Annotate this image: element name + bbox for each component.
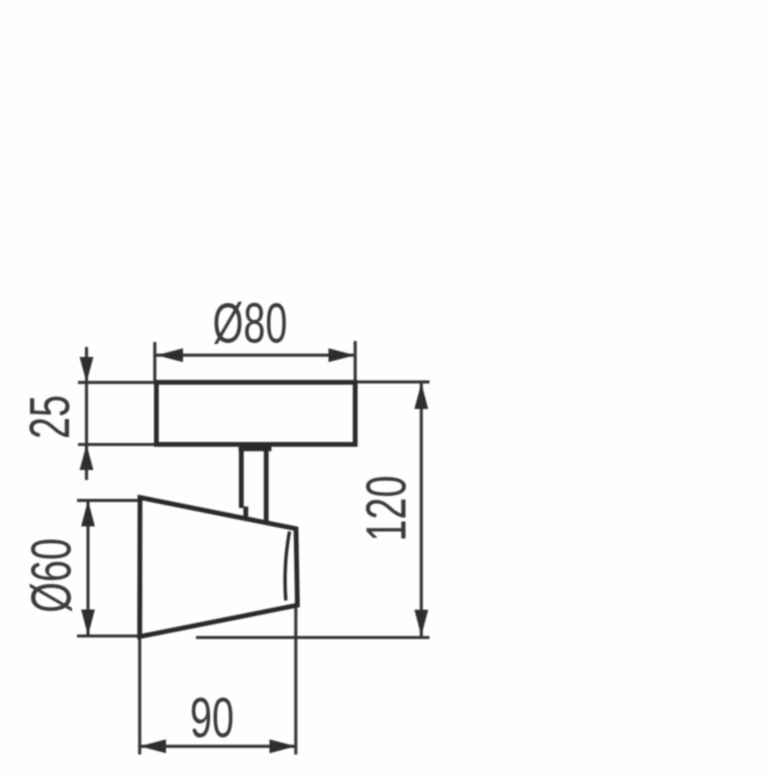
svg-text:Ø80: Ø80 xyxy=(213,293,288,356)
svg-text:Ø60: Ø60 xyxy=(21,538,84,613)
svg-text:90: 90 xyxy=(190,687,234,750)
svg-text:25: 25 xyxy=(19,395,82,439)
svg-text:120: 120 xyxy=(356,476,419,542)
